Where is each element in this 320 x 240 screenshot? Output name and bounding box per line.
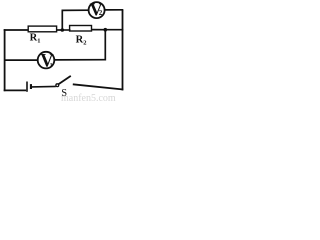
switch S — [56, 76, 71, 99]
wire — [73, 84, 124, 89]
wire — [62, 9, 89, 11]
wire — [64, 29, 71, 31]
wire — [57, 29, 63, 31]
svg-text:1: 1 — [50, 63, 53, 69]
wire — [4, 29, 29, 31]
svg-text:2: 2 — [99, 9, 103, 17]
node B — [104, 28, 108, 32]
wire — [105, 29, 123, 31]
battery — [27, 82, 32, 92]
wire — [92, 29, 106, 31]
wire — [105, 9, 124, 11]
voltmeter V2 — [89, 0, 105, 19]
voltmeter V1 — [38, 51, 55, 71]
wire — [122, 10, 124, 91]
wire — [4, 89, 27, 91]
wire — [54, 59, 105, 61]
wire — [104, 30, 106, 61]
resistor R1 — [28, 26, 56, 44]
node A — [61, 28, 65, 32]
svg-text:manfen5.com: manfen5.com — [61, 93, 116, 101]
wire — [5, 59, 38, 61]
wire — [4, 29, 6, 91]
resistor R2 — [70, 26, 92, 47]
wire — [61, 10, 63, 30]
wire — [32, 85, 56, 88]
